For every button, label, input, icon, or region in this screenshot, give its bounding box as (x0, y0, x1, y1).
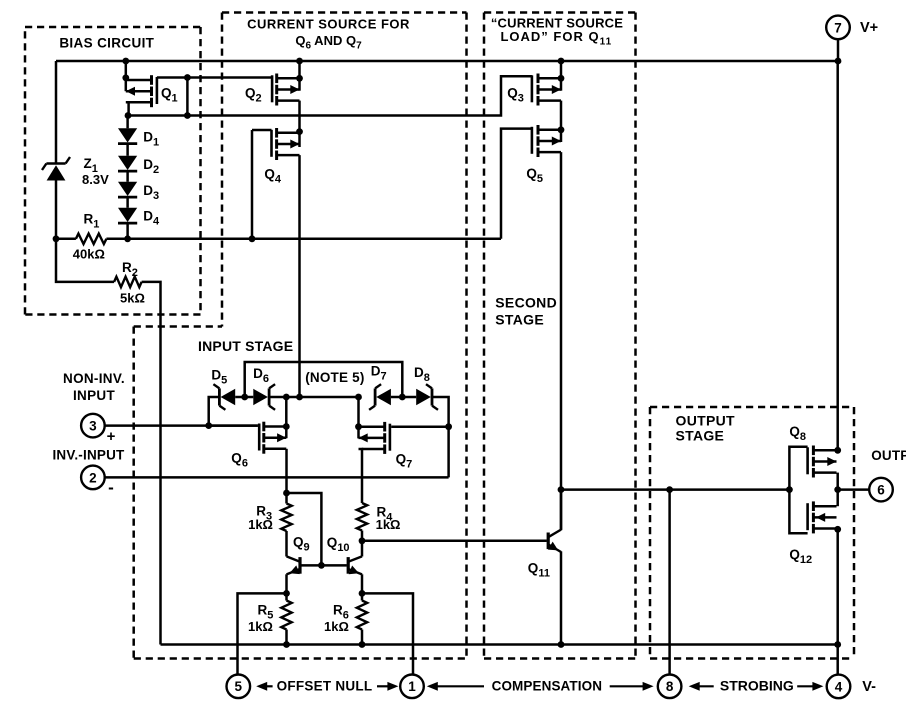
wire Q10 emitter down (359, 574, 366, 600)
arrow to pin1 (377, 682, 398, 691)
wire D3-D4 (126, 197, 129, 208)
label V- (862, 679, 876, 695)
transistor Q5 (532, 125, 561, 157)
label Q4 (264, 167, 282, 186)
wire Q7 source fold down to R4 (361, 449, 364, 503)
label Q1 (161, 86, 178, 105)
wire Q12 drain fold to output node (836, 490, 839, 507)
label INPUT STAGE (198, 338, 293, 354)
wire D4 to R1 node (124, 223, 131, 242)
wire Q9/Q10 base feed (287, 493, 325, 569)
transistor Q10 (348, 556, 362, 574)
resistor R5 1k (281, 601, 291, 630)
label V+ (860, 20, 878, 36)
diode D5 (213, 384, 235, 410)
label OFFSET NULL (277, 679, 373, 694)
wire Z1 anode to R1 node (53, 181, 60, 243)
svg-text:BIAS CIRCUIT: BIAS CIRCUIT (59, 36, 154, 51)
wire Q3 drain fold to Q5 (558, 101, 565, 142)
diode D7 (369, 384, 391, 410)
wire Q7 drain/bulk from diode row (355, 397, 362, 438)
resistor R6 1k (357, 601, 367, 630)
wire V+ rail (56, 60, 838, 63)
arrow compensation left (427, 682, 484, 691)
svg-text:NON-INV.: NON-INV. (63, 371, 125, 386)
wire Q9-Q10 base link (301, 564, 346, 567)
wire Q10 collector to Q11 base (362, 540, 547, 543)
diode D3 (118, 182, 137, 197)
diode D2 (118, 156, 137, 171)
wire V+ rail down right side to Q8 drain (834, 61, 841, 454)
diode D1 (118, 128, 137, 143)
wire D7-D8 junction (391, 394, 416, 401)
label OUTPUT right (871, 448, 906, 463)
label Q6 (231, 451, 248, 470)
transistor Q7 (359, 422, 390, 454)
label Q2 (245, 86, 262, 105)
svg-text:SECOND: SECOND (495, 295, 557, 311)
svg-text:40kΩ: 40kΩ (73, 247, 105, 262)
wire R3 to Q9 collector (285, 531, 288, 557)
label Q5 (526, 166, 543, 185)
svg-text:STAGE: STAGE (676, 427, 725, 443)
svg-text:OUTPUT: OUTPUT (676, 412, 735, 428)
svg-text:INV.-INPUT: INV.-INPUT (52, 447, 125, 462)
wire V- rail (161, 643, 838, 646)
resistor R4 1k (357, 503, 367, 531)
label D7 (371, 364, 387, 383)
label CURRENT SOURCE FOR Q6 AND Q7 (247, 16, 410, 51)
wire Q7 gate lead (391, 425, 448, 428)
svg-text:V+: V+ (860, 20, 878, 36)
dashed box: OUTPUT STAGE (650, 407, 854, 659)
label Q8 (789, 424, 806, 443)
wire pin3 input (104, 422, 257, 429)
svg-text:(NOTE 5): (NOTE 5) (305, 370, 364, 385)
label Z1 8.3V (82, 156, 109, 187)
label plus sign (107, 428, 116, 445)
wire Q11 emitter to V- rail (558, 551, 565, 647)
svg-text:3: 3 (89, 419, 97, 434)
transistor Q12 (808, 501, 837, 533)
svg-text:INPUT STAGE: INPUT STAGE (198, 338, 293, 354)
label D4 (143, 209, 160, 228)
wire pin3 node up to diode row (209, 397, 220, 426)
label R5 1k (248, 603, 273, 635)
pin 3 terminal (81, 414, 105, 438)
wire Q1 source to D1 (126, 116, 129, 129)
resistor R2 5k (114, 277, 142, 287)
wire Q3 source/bulk to V+ rail (558, 58, 565, 91)
label R2 5k (120, 260, 145, 306)
wire row to D7 (355, 394, 362, 401)
wire R5 to V- rail (283, 630, 290, 648)
label Q7 (396, 452, 413, 471)
wire Q6 drain/bulk from diode row (283, 397, 290, 438)
transistor Q11 (548, 530, 561, 552)
svg-text:COMPENSATION: COMPENSATION (492, 679, 602, 694)
svg-text:5kΩ: 5kΩ (120, 291, 145, 306)
label D5 (211, 368, 227, 387)
pin 2 terminal (81, 466, 105, 490)
label R4 1k (376, 505, 401, 532)
wire Q4 source fold down to input stage feed (298, 155, 301, 397)
label R1 40k (73, 212, 105, 262)
label R6 1k (324, 603, 349, 635)
wire pin4 drop (836, 645, 839, 676)
wire Q8/Q12 gate bracket (789, 447, 807, 533)
label CURRENT SOURCE LOAD FOR Q11 (491, 15, 623, 47)
wire D6 to feed node (270, 394, 361, 401)
wire Q6 source fold down to R3 (283, 449, 290, 504)
svg-text:OUTPUT: OUTPUT (871, 448, 906, 463)
label Q10 (327, 535, 350, 554)
wire Q4 gate drop (252, 130, 272, 239)
svg-text:+: + (107, 428, 116, 445)
wire D2-D3 (126, 171, 129, 182)
dashed box: INPUT STAGE (134, 327, 467, 659)
svg-text:8.3V: 8.3V (82, 172, 109, 187)
wire output node to pin 6 (838, 488, 870, 491)
svg-text:2: 2 (89, 470, 97, 485)
svg-text:CURRENT SOURCE FOR: CURRENT SOURCE FOR (247, 16, 410, 31)
label Q12 (789, 547, 812, 566)
pin 4 terminal (827, 675, 851, 699)
transistor Q4 (272, 128, 300, 160)
wire D1-D2 (126, 144, 129, 156)
wire R6 to V- rail (359, 630, 366, 648)
wire D8 to Q7 gate corner (433, 397, 452, 477)
diode D8 (416, 384, 438, 410)
dashed box: SECOND STAGE / CURRENT SOURCE LOAD FOR Q11 (484, 13, 636, 659)
svg-text:1kΩ: 1kΩ (324, 619, 349, 634)
wire Q2 source/bulk to V+ rail (296, 58, 303, 91)
svg-text:8: 8 (666, 679, 674, 694)
label D3 (143, 183, 159, 202)
wire R2 to V- rail (142, 282, 161, 645)
arrow strobing left (689, 682, 714, 691)
svg-text:V-: V- (862, 679, 876, 695)
pin 8 terminal (658, 675, 682, 699)
label STROBING (720, 678, 794, 694)
label NON-INV. INPUT (63, 371, 125, 403)
transistor Q2 (272, 74, 299, 106)
wire pin2 input (104, 476, 448, 479)
svg-text:INPUT: INPUT (73, 388, 115, 403)
svg-text:STROBING: STROBING (720, 678, 794, 694)
label SECOND STAGE (495, 295, 557, 328)
wire pin8 drop (668, 490, 671, 675)
svg-text:5: 5 (235, 679, 243, 694)
label R3 1k (248, 504, 273, 532)
wire net A horizontal (128, 76, 532, 115)
wire bias left branch (55, 61, 58, 164)
dashed box: CURRENT SOURCE FOR Q6 AND Q7 (222, 13, 467, 659)
label D8 (414, 365, 430, 384)
wire Q5 source fold down second stage (558, 152, 565, 530)
wire Q1 drain/bulk to V+ rail (122, 58, 129, 92)
wire Q12 source to V- rail (834, 526, 841, 648)
label OUTPUT STAGE (676, 412, 735, 443)
wire Q9 emitter down (283, 574, 290, 600)
pin 5 terminal (227, 675, 251, 699)
svg-text:4: 4 (835, 679, 843, 694)
wire Q1 source fold (125, 102, 132, 119)
transistor Q6 (259, 422, 286, 454)
wire Q11 collector up (560, 490, 563, 531)
label minus sign (108, 478, 114, 497)
arrow strobing right (797, 682, 823, 691)
transistor Q8 (808, 446, 837, 478)
wire pin5 offset null (238, 593, 287, 675)
arrow compensation right (610, 682, 654, 691)
wire D5-D6 junction (235, 394, 253, 401)
dashed box: BIAS CIRCUIT (25, 27, 201, 315)
resistor R3 1k (281, 504, 291, 532)
label COMPENSATION (492, 679, 602, 694)
wire overline (NOTE 5) connection (245, 362, 403, 397)
label D6 (253, 366, 269, 385)
wire pin7 to V+ rail (835, 39, 842, 65)
svg-text:-: - (108, 478, 114, 497)
svg-text:1kΩ: 1kΩ (376, 517, 401, 532)
svg-text:1: 1 (408, 679, 416, 694)
wire R1 node row (56, 235, 501, 242)
wire pin1 offset null (362, 593, 413, 675)
pin 1 terminal (400, 675, 424, 699)
wire R4 to Q10 collector node (359, 531, 366, 557)
label Q3 (507, 86, 524, 105)
svg-text:OFFSET NULL: OFFSET NULL (277, 679, 373, 694)
wire second stage output (561, 486, 793, 493)
wire R1 node down to R2 (56, 239, 114, 282)
svg-text:STAGE: STAGE (495, 311, 544, 327)
label BIAS CIRCUIT (59, 36, 154, 51)
resistor R1 40k (76, 234, 107, 244)
transistor Q1 (126, 75, 157, 107)
svg-text:6: 6 (877, 483, 885, 498)
label Q9 (293, 535, 310, 554)
diode D6 (253, 384, 275, 410)
zener Z1 8.3V (42, 157, 70, 181)
transistor Q9 (287, 556, 301, 574)
transistor Q3 (532, 74, 561, 106)
label Q11 (528, 561, 550, 580)
wire Q6 gate lead (209, 424, 258, 427)
arrow to pin5 (256, 682, 272, 691)
pin 7 terminal (826, 16, 850, 40)
label INV.-INPUT (52, 447, 125, 462)
svg-text:1kΩ: 1kΩ (248, 517, 273, 532)
wire Q5 gate riser (501, 129, 532, 239)
svg-text:7: 7 (834, 20, 842, 35)
wire Q8 source fold to output node (834, 473, 841, 493)
wire Q1 gate rail (net A gate wire) (157, 74, 272, 119)
pin 6 terminal (869, 478, 893, 502)
label NOTE 5 (305, 370, 364, 385)
label D1 (143, 130, 159, 149)
diode D4 (118, 208, 137, 223)
svg-text:1kΩ: 1kΩ (248, 619, 273, 634)
label D2 (143, 157, 159, 176)
wire Q2 drain fold down to net A and Q4 (296, 101, 303, 147)
